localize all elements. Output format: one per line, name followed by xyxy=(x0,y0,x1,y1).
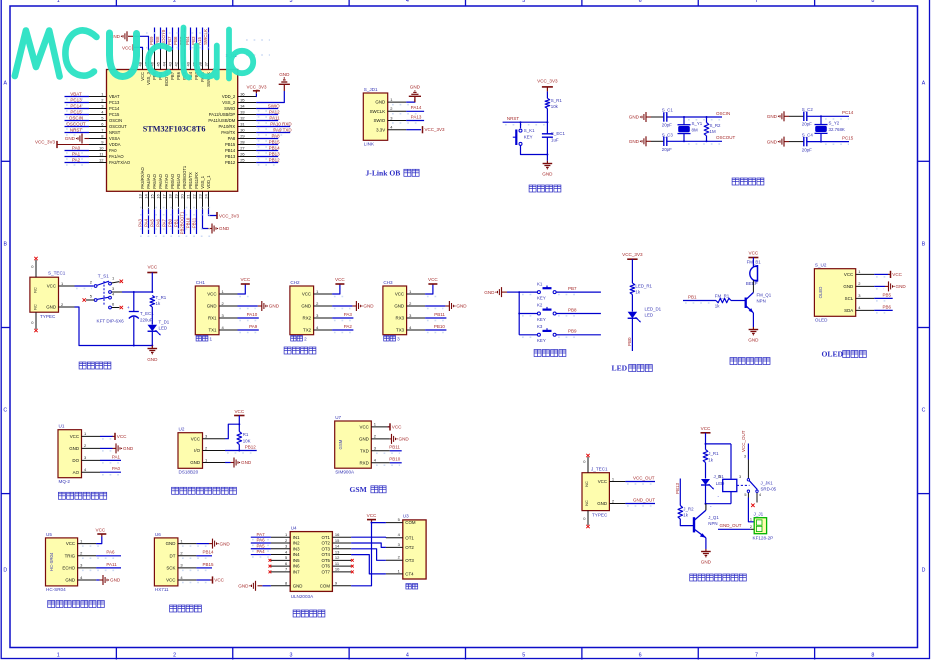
svg-text:VCC: VCC xyxy=(302,292,311,297)
svg-text:2: 2 xyxy=(750,525,752,529)
node PB12 xyxy=(269,157,281,162)
svg-text:DT: DT xyxy=(170,553,176,558)
svg-text:32: 32 xyxy=(240,115,245,120)
ground GND buttons xyxy=(484,287,507,297)
svg-text:DO: DO xyxy=(72,458,79,463)
svg-text:8: 8 xyxy=(871,653,874,659)
svg-text:IN6: IN6 xyxy=(293,564,300,569)
svg-text:PB15: PB15 xyxy=(225,142,236,147)
svg-text:OT3: OT3 xyxy=(405,558,414,563)
svg-text:OLED: OLED xyxy=(818,287,823,299)
svg-text:GND: GND xyxy=(65,136,76,141)
wire net PB14 xyxy=(256,151,278,154)
label serial-3 xyxy=(384,336,400,342)
relay switch contacts xyxy=(737,455,777,508)
connector S_TEC1 TYPEC body xyxy=(30,277,59,312)
svg-text:OT7: OT7 xyxy=(321,569,330,574)
svg-text:VCC: VCC xyxy=(214,578,224,583)
power VCC_3V3 VDDA pin9 xyxy=(35,140,89,148)
svg-text:GND: GND xyxy=(110,578,121,583)
svg-text:LED: LED xyxy=(645,312,654,317)
node SWCLK xyxy=(203,29,208,45)
svg-text:28: 28 xyxy=(240,139,245,144)
svg-text:1: 1 xyxy=(57,0,60,4)
wire net PA13 xyxy=(392,121,424,124)
button K2 KEY xyxy=(537,303,556,322)
svg-text:GND: GND xyxy=(359,437,369,442)
connector J_TEC1 TYPEC body xyxy=(582,473,609,511)
svg-text:PC14: PC14 xyxy=(70,103,82,108)
wire net PA9 xyxy=(238,330,259,333)
wire net PB14 weighing xyxy=(182,556,212,559)
svg-text:PA10/RX: PA10/RX xyxy=(218,124,235,129)
node PB4 xyxy=(185,36,190,45)
pin 1 VCC xyxy=(207,289,237,297)
svg-text:PB7: PB7 xyxy=(568,286,577,291)
ground GND weighing xyxy=(182,539,230,549)
svg-text:VCC: VCC xyxy=(749,251,759,256)
svg-text:S_R1: S_R1 xyxy=(551,98,563,103)
wire net PB2BOOT1 xyxy=(184,209,186,234)
svg-text:VCC: VCC xyxy=(240,277,250,282)
svg-text:C: C xyxy=(922,408,926,414)
wire net PA4 xyxy=(148,209,150,234)
svg-text:A: A xyxy=(3,81,7,87)
wire pin1 to GND xyxy=(392,99,415,105)
svg-text:PA0: PA0 xyxy=(72,145,81,150)
ground GND GSM xyxy=(390,434,410,444)
no-connect IN6 xyxy=(269,565,272,568)
svg-text:13: 13 xyxy=(137,194,142,199)
svg-text:5: 5 xyxy=(522,0,525,4)
pin 33 PA12/USB/DP xyxy=(209,109,256,117)
wire net PB10 xyxy=(190,209,192,234)
svg-text:GND: GND xyxy=(69,446,79,451)
node NRST xyxy=(70,127,83,132)
svg-text:GND: GND xyxy=(767,114,778,119)
svg-text:OT2: OT2 xyxy=(405,545,414,550)
svg-text:GND: GND xyxy=(597,501,607,506)
node PA13 xyxy=(411,114,422,119)
svg-text:PA2: PA2 xyxy=(344,324,353,329)
ground GND ultrasonic xyxy=(96,575,121,585)
svg-text:SIM900A: SIM900A xyxy=(335,470,355,475)
svg-text:CH3: CH3 xyxy=(383,280,393,285)
svg-text:PB13: PB13 xyxy=(269,151,281,156)
svg-text:17: 17 xyxy=(161,194,166,199)
transistor FM_Q1 NPN xyxy=(746,292,772,313)
pin 30 PA9/TX xyxy=(221,127,256,135)
pin 4 IN4 xyxy=(271,549,300,557)
svg-text:K3: K3 xyxy=(537,324,543,329)
wire bus to K3 xyxy=(519,335,537,337)
pin 8 VSSA xyxy=(89,133,120,141)
pin 2 GND xyxy=(843,281,874,289)
svg-text:FM_Q1: FM_Q1 xyxy=(757,292,772,297)
node PB8 xyxy=(568,307,577,312)
designator U5 xyxy=(46,532,52,537)
node PC15 xyxy=(70,109,82,114)
power VCC relay xyxy=(701,426,712,433)
power VCC_3V3 VDD_2 pin36 xyxy=(246,84,267,96)
pin 4 TX1 xyxy=(208,325,237,333)
svg-text:TX3: TX3 xyxy=(396,328,405,333)
pin 1 VCC xyxy=(844,269,874,277)
svg-text:24: 24 xyxy=(203,194,208,199)
svg-text:KF128-2P: KF128-2P xyxy=(753,536,774,541)
svg-text:GND: GND xyxy=(220,541,231,546)
wire net GND_OUT xyxy=(625,504,655,507)
node PB3 xyxy=(191,36,196,45)
svg-text:VCC: VCC xyxy=(70,434,79,439)
node PA9 xyxy=(249,324,258,329)
svg-text:4: 4 xyxy=(406,0,409,4)
capacitor S_C4 20pF xyxy=(789,133,813,153)
pin 3 DO xyxy=(72,455,100,463)
label motor xyxy=(406,584,418,589)
svg-text:LED_R1: LED_R1 xyxy=(635,284,652,289)
title ultrasonic module xyxy=(48,601,105,608)
wire net VCC_OUT relay switch xyxy=(747,444,749,460)
node GND_OUT right xyxy=(720,523,742,528)
wire VSS_2 pin35 xyxy=(256,91,284,103)
svg-text:20pF: 20pF xyxy=(802,122,812,127)
label TYPEC xyxy=(40,314,56,319)
power VCC serial xyxy=(238,277,251,297)
svg-text:J_JK1: J_JK1 xyxy=(761,480,774,485)
svg-text:OSCIN: OSCIN xyxy=(109,118,122,123)
wire VCC to R1 xyxy=(546,91,548,98)
pin 2 PC13 xyxy=(89,97,120,105)
node SWIO xyxy=(268,103,280,108)
power VCC smoke xyxy=(100,433,127,440)
designator CH2 xyxy=(290,280,300,285)
pin 0 bottom no-connect relay-TEC xyxy=(583,511,589,529)
svg-text:1k: 1k xyxy=(683,512,688,517)
wire net PA11 xyxy=(256,121,278,124)
wire net PB6 xyxy=(874,310,893,313)
svg-text:SCK: SCK xyxy=(166,566,175,571)
wire OT2 to motor xyxy=(351,543,386,547)
pin 7 IN7 xyxy=(271,567,300,575)
resistor FM_R1 1k xyxy=(715,294,731,309)
svg-text:PA4: PA4 xyxy=(257,549,266,554)
pin 28 PB15 xyxy=(225,139,256,147)
title GSM module xyxy=(350,485,387,494)
svg-text:34: 34 xyxy=(240,103,245,108)
svg-text:PA5: PA5 xyxy=(149,218,154,226)
title buzzer circuit xyxy=(730,358,770,365)
svg-text:VCC: VCC xyxy=(140,72,145,81)
no-connect IN7 xyxy=(269,570,272,573)
wire net PA0 xyxy=(100,472,121,475)
svg-text:VDD_2: VDD_2 xyxy=(222,94,236,99)
svg-text:44: 44 xyxy=(161,61,166,66)
connector U2 body xyxy=(178,433,203,469)
svg-text:PA1/AO: PA1/AO xyxy=(109,154,124,159)
wire net PB8 xyxy=(556,314,601,316)
pin 4 GND xyxy=(65,575,96,583)
pin 12 PA2/TX/AO xyxy=(89,157,131,165)
wire GND return rail xyxy=(75,307,153,346)
svg-text:FM_R1: FM_R1 xyxy=(715,294,730,299)
svg-text:VDDA: VDDA xyxy=(109,142,121,147)
wire net PB11 GSM xyxy=(376,451,402,454)
svg-text:VCC: VCC xyxy=(335,277,345,282)
pin 40 PB4 xyxy=(185,50,193,80)
svg-text:DS18B20: DS18B20 xyxy=(179,470,199,475)
svg-text:AO: AO xyxy=(73,470,80,475)
node PB8 xyxy=(155,36,160,45)
wire VCC to R xyxy=(631,259,633,283)
wire net PA2 xyxy=(332,330,353,333)
resistor LED_R1 1k xyxy=(630,283,652,295)
pin 3 RX2 xyxy=(303,313,333,321)
svg-text:VCC: VCC xyxy=(166,578,175,583)
pin 39 PB3 xyxy=(191,50,199,80)
capacitor S_C1 20pF xyxy=(651,108,673,128)
svg-text:PB11: PB11 xyxy=(389,445,400,450)
svg-text:19: 19 xyxy=(173,194,178,199)
node PB14 xyxy=(269,145,281,150)
svg-text:PB2/BOOT1: PB2/BOOT1 xyxy=(182,165,187,189)
pin 48 VCC xyxy=(137,50,145,81)
pin 1 GND xyxy=(190,457,225,465)
svg-text:PC15: PC15 xyxy=(70,109,82,114)
pin 14 OT3 xyxy=(321,544,351,552)
wire junction to button xyxy=(520,122,522,128)
svg-text:VCC: VCC xyxy=(147,265,157,270)
resistor S_R2 1M xyxy=(704,117,721,141)
wire net PB15 xyxy=(256,145,278,148)
no-connect OT5 OT6 OT7 xyxy=(351,559,354,573)
svg-text:NRST: NRST xyxy=(70,127,83,132)
pin 11 OT6 xyxy=(321,561,351,569)
title J-Link OB interface xyxy=(366,169,420,178)
wire net PB3 xyxy=(196,28,198,51)
svg-text:SCL: SCL xyxy=(845,296,854,301)
wire net PB1 xyxy=(683,301,716,304)
svg-text:PA4/AO: PA4/AO xyxy=(146,173,151,188)
pin 15 PA5/AO xyxy=(149,173,157,209)
node PB15 weighing xyxy=(203,562,215,567)
svg-text:PA7: PA7 xyxy=(161,218,166,226)
pin 6 IN6 xyxy=(271,561,300,569)
node NRST xyxy=(507,116,520,121)
designator CH1 xyxy=(196,280,206,285)
svg-text:2: 2 xyxy=(173,0,176,4)
node OSCIN xyxy=(716,111,730,116)
LED circuit group xyxy=(612,252,662,373)
pin 25 PB12 xyxy=(225,157,256,165)
pin 7 NRST xyxy=(89,127,121,135)
svg-text:NRST: NRST xyxy=(109,130,121,135)
svg-text:R1: R1 xyxy=(243,432,249,437)
node PA6 xyxy=(155,218,160,226)
wire net OSCIN xyxy=(65,121,90,124)
node VCC_OUT xyxy=(633,475,655,480)
svg-text:U4: U4 xyxy=(291,525,297,530)
button circuit group xyxy=(484,281,601,356)
svg-text:PA2/TX/AO: PA2/TX/AO xyxy=(109,160,131,165)
pin 1 GND xyxy=(375,97,406,105)
title smoke detection module xyxy=(58,492,106,499)
svg-text:U2: U2 xyxy=(179,427,185,432)
svg-text:7: 7 xyxy=(755,653,758,659)
svg-text:GND: GND xyxy=(65,578,75,583)
wire net OSCOUT xyxy=(65,127,90,130)
svg-text:18: 18 xyxy=(167,194,172,199)
svg-text:PC13: PC13 xyxy=(109,100,120,105)
pin 14 PA4/AO xyxy=(143,173,151,209)
svg-text:RXD: RXD xyxy=(360,460,369,465)
svg-text:10K: 10K xyxy=(243,438,251,443)
LED T_D1 xyxy=(148,320,170,336)
svg-text:VCC_OUT: VCC_OUT xyxy=(741,430,746,452)
wire net PB11 xyxy=(425,318,446,321)
pin 2 DT xyxy=(170,551,197,559)
op-amp U1 MCU STM32F103C8T6 body xyxy=(107,70,238,192)
wire net PB1 xyxy=(178,209,180,234)
crystal circuit 2 group xyxy=(767,107,854,153)
node PB6 xyxy=(173,36,178,45)
LED J_D1 opto xyxy=(701,474,724,489)
power VCC_3V3 J-Link pin4 xyxy=(406,126,445,133)
wire net BOOT0 xyxy=(166,28,168,51)
wire net GND_OUT to connector pin2 xyxy=(718,528,754,530)
svg-text:GND: GND xyxy=(190,460,200,465)
capacitor S_C3 20pF xyxy=(651,132,673,152)
designator U1 xyxy=(59,424,65,429)
pin 27 PB14 xyxy=(225,145,256,153)
svg-text:25: 25 xyxy=(240,157,245,162)
connector U7 body xyxy=(335,421,372,468)
ground GND near S_C2 xyxy=(767,111,789,121)
wire net PA6 xyxy=(251,543,271,545)
ground VSSA pin8 xyxy=(65,134,89,144)
svg-text:J_R1: J_R1 xyxy=(708,451,719,456)
logo MCUclub xyxy=(15,28,253,79)
svg-text:8M: 8M xyxy=(692,127,698,132)
svg-text:10k: 10k xyxy=(551,104,559,109)
svg-text:GND: GND xyxy=(484,290,495,295)
pin 4 SDA xyxy=(844,305,874,313)
svg-text:5: 5 xyxy=(522,653,525,659)
node PB7 xyxy=(167,36,172,45)
designator U4 xyxy=(291,525,297,530)
node PA0 xyxy=(112,466,121,471)
svg-text:20pF: 20pF xyxy=(662,147,672,152)
smoke detection module group xyxy=(58,424,134,500)
svg-text:PA14: PA14 xyxy=(411,105,422,110)
svg-text:OLED: OLED xyxy=(822,350,844,359)
svg-text:COM: COM xyxy=(405,520,416,525)
svg-text:J-Link OB: J-Link OB xyxy=(366,169,401,178)
svg-text:3: 3 xyxy=(289,653,292,659)
svg-text:HX711: HX711 xyxy=(155,587,169,592)
grid dots under MCU xyxy=(140,33,270,236)
svg-text:VSS_2: VSS_2 xyxy=(222,100,236,105)
pin 20 PB2/BOOT1 xyxy=(179,165,187,209)
ground GND OLED xyxy=(874,281,906,291)
node PA0 xyxy=(72,145,81,150)
svg-text:COM: COM xyxy=(320,583,331,588)
svg-text:PB9: PB9 xyxy=(149,36,154,45)
svg-text:S_JD1: S_JD1 xyxy=(364,87,378,92)
svg-text:PA8: PA8 xyxy=(272,133,281,138)
node PC14 xyxy=(70,103,82,108)
svg-text:PA9 TXD: PA9 TXD xyxy=(273,127,292,132)
svg-text:PA9/TX: PA9/TX xyxy=(221,130,235,135)
pin 5 COM motor xyxy=(386,517,416,525)
svg-text:GND: GND xyxy=(629,115,640,120)
wire net PB7 xyxy=(172,28,174,51)
svg-text:PA5/AO: PA5/AO xyxy=(152,173,157,188)
svg-text:PB12: PB12 xyxy=(245,444,257,449)
pin 2 GND xyxy=(46,302,74,310)
svg-text:IN5: IN5 xyxy=(293,558,300,563)
wire net PB6 xyxy=(178,28,180,51)
wire net OSCIN rail xyxy=(667,116,722,120)
stepper motor group xyxy=(238,513,426,617)
wire net PA7 xyxy=(166,209,168,234)
node PA2 xyxy=(344,324,353,329)
svg-text:TYPEC: TYPEC xyxy=(40,314,56,319)
designator U7 xyxy=(335,415,341,420)
pin 2 GND xyxy=(394,301,425,309)
ground GND VSS_2 up-symbol xyxy=(279,72,290,91)
capacitor S_EC1 1uF xyxy=(542,122,566,161)
pin 1 VCC xyxy=(66,538,96,546)
svg-text:GND: GND xyxy=(207,304,217,309)
wire R to LED xyxy=(631,295,633,312)
svg-text:I/O: I/O xyxy=(194,448,200,453)
svg-text:VCC: VCC xyxy=(234,409,244,414)
designator S_U2 xyxy=(815,263,827,268)
serial port 1 group xyxy=(195,277,279,341)
wire net NRST xyxy=(503,121,549,125)
LED LED_D1 xyxy=(628,306,662,322)
svg-text:10: 10 xyxy=(335,567,340,572)
svg-text:1M: 1M xyxy=(710,129,716,134)
svg-text:14: 14 xyxy=(143,194,148,199)
svg-text:27: 27 xyxy=(240,145,245,150)
svg-text:16: 16 xyxy=(335,532,340,537)
svg-text:14: 14 xyxy=(335,544,340,549)
buzzer circuit group xyxy=(683,251,772,365)
svg-text:GSM: GSM xyxy=(338,439,343,449)
node PB11 GSM xyxy=(389,445,400,450)
node PA1 xyxy=(112,454,121,459)
node PB7 xyxy=(568,286,577,291)
pin 16 PA6/AO xyxy=(155,173,163,209)
title reset circuit xyxy=(529,185,561,192)
svg-text:VCC: VCC xyxy=(392,425,402,430)
power VCC serial xyxy=(425,277,438,297)
svg-text:15: 15 xyxy=(335,538,340,543)
svg-text:BOOT0: BOOT0 xyxy=(161,29,166,45)
node PB6 xyxy=(882,304,891,309)
temperature module group xyxy=(172,409,257,495)
wire VCC to switch xyxy=(75,286,94,289)
svg-text:3: 3 xyxy=(744,455,746,459)
svg-text:VCC_OUT: VCC_OUT xyxy=(633,475,655,480)
label LINK xyxy=(364,142,375,147)
pin 3 VCC xyxy=(191,434,225,442)
svg-text:20: 20 xyxy=(179,194,184,199)
svg-text:OLED: OLED xyxy=(815,318,828,323)
ground GND serial xyxy=(425,301,467,311)
